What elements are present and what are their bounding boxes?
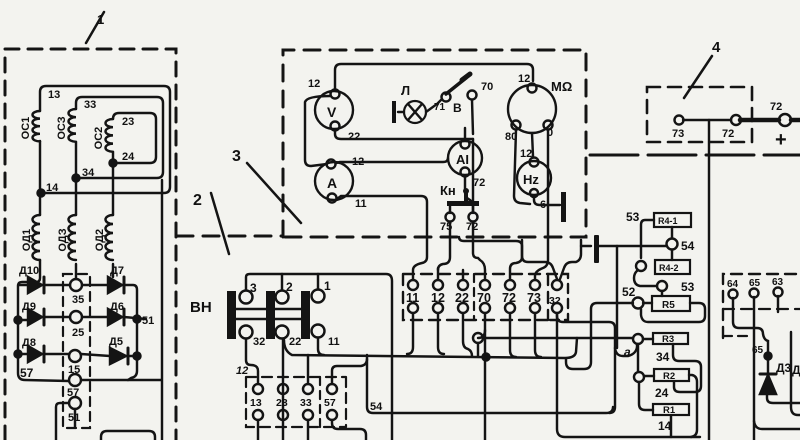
svg-text:57: 57: [324, 397, 336, 409]
svg-text:R4-1: R4-1: [658, 216, 678, 226]
svg-text:72: 72: [473, 177, 485, 189]
svg-text:V: V: [327, 104, 337, 120]
svg-text:Д8: Д8: [22, 337, 36, 349]
svg-text:65: 65: [749, 278, 761, 289]
svg-text:22: 22: [289, 336, 301, 348]
svg-text:ОС2: ОС2: [93, 127, 105, 150]
svg-text:Д5: Д5: [109, 336, 123, 348]
svg-text:2: 2: [286, 280, 293, 294]
svg-text:32: 32: [549, 295, 561, 307]
svg-text:ОДЗ: ОДЗ: [57, 228, 69, 251]
svg-text:+: +: [775, 129, 787, 151]
svg-text:Hz: Hz: [523, 172, 539, 187]
svg-text:64: 64: [727, 279, 739, 290]
svg-text:53: 53: [626, 210, 640, 224]
svg-text:52: 52: [622, 285, 636, 299]
svg-text:25: 25: [72, 327, 84, 339]
svg-text:14: 14: [658, 419, 672, 433]
svg-text:32: 32: [253, 336, 265, 348]
svg-text:R2: R2: [663, 371, 675, 382]
svg-text:63: 63: [772, 277, 784, 288]
svg-text:4: 4: [712, 39, 721, 56]
svg-text:35: 35: [72, 294, 84, 306]
svg-text:57: 57: [20, 366, 34, 380]
svg-text:R4-2: R4-2: [659, 263, 679, 273]
svg-text:ОС1: ОС1: [20, 117, 32, 140]
svg-text:54: 54: [370, 401, 383, 413]
svg-text:72: 72: [770, 101, 782, 113]
svg-text:ОД1: ОД1: [21, 229, 33, 251]
svg-text:13: 13: [48, 89, 60, 101]
svg-text:73: 73: [672, 128, 684, 140]
svg-text:12: 12: [520, 148, 532, 160]
svg-text:23: 23: [276, 397, 288, 409]
svg-text:R1: R1: [663, 405, 676, 416]
svg-text:R5: R5: [662, 300, 675, 311]
svg-text:23: 23: [122, 116, 134, 128]
svg-text:Д6: Д6: [792, 363, 800, 377]
svg-text:70: 70: [477, 291, 491, 305]
svg-text:Д6: Д6: [110, 301, 124, 313]
svg-text:24: 24: [122, 151, 135, 163]
svg-text:65: 65: [752, 345, 764, 356]
svg-text:22: 22: [455, 291, 469, 305]
svg-text:24: 24: [655, 386, 669, 400]
svg-text:МΩ: МΩ: [551, 79, 572, 94]
svg-text:Д3: Д3: [776, 361, 792, 375]
svg-text:71: 71: [434, 102, 446, 113]
svg-text:54: 54: [681, 239, 695, 253]
svg-text:Кн: Кн: [440, 183, 456, 198]
svg-text:72: 72: [722, 128, 734, 140]
svg-text:Д9: Д9: [22, 301, 36, 313]
svg-text:72: 72: [502, 291, 516, 305]
svg-text:15: 15: [68, 364, 80, 376]
svg-text:2: 2: [193, 192, 202, 209]
svg-text:ОД2: ОД2: [94, 229, 106, 251]
svg-text:53: 53: [681, 280, 695, 294]
svg-text:11: 11: [355, 198, 367, 210]
svg-text:14: 14: [46, 182, 59, 194]
svg-text:33: 33: [300, 397, 312, 409]
svg-text:34: 34: [82, 167, 95, 179]
svg-text:Д10: Д10: [19, 265, 39, 277]
svg-text:3: 3: [232, 148, 241, 165]
svg-text:1: 1: [324, 279, 331, 293]
svg-text:А: А: [327, 175, 337, 191]
svg-text:33: 33: [84, 99, 96, 111]
svg-text:22: 22: [348, 131, 360, 143]
svg-text:12: 12: [308, 78, 320, 90]
svg-text:12: 12: [431, 291, 445, 305]
svg-text:13: 13: [250, 397, 262, 409]
svg-text:1: 1: [97, 12, 104, 27]
svg-text:а: а: [624, 345, 631, 359]
svg-text:3: 3: [250, 281, 257, 295]
svg-text:ВН: ВН: [190, 299, 212, 316]
svg-text:ОСЗ: ОСЗ: [56, 116, 68, 139]
svg-text:57: 57: [67, 387, 79, 399]
svg-text:34: 34: [656, 350, 670, 364]
svg-text:В: В: [453, 101, 462, 115]
svg-text:11: 11: [328, 336, 340, 348]
svg-text:11: 11: [406, 291, 419, 305]
svg-text:12: 12: [236, 365, 248, 377]
svg-text:Л: Л: [401, 83, 410, 98]
svg-text:73: 73: [527, 291, 541, 305]
svg-text:АI: АI: [456, 152, 469, 167]
svg-text:70: 70: [481, 81, 493, 93]
svg-text:51: 51: [142, 315, 154, 327]
svg-text:12: 12: [518, 73, 530, 85]
